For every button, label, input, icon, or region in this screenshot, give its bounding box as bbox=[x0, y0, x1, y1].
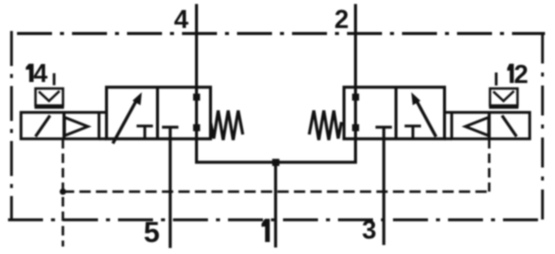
valve V1 position divider bbox=[156, 87, 159, 139]
pilot triangle (left, pointing right) bbox=[65, 117, 88, 135]
valve V2 blocked port T (right square) bbox=[405, 126, 421, 139]
solenoid Y1 coil slash bbox=[36, 116, 51, 137]
manual override base bar (right) bbox=[489, 106, 519, 108]
node: pilot junction bbox=[60, 188, 66, 194]
manual override box (left) bbox=[36, 89, 64, 106]
svg-text:4: 4 bbox=[174, 4, 189, 34]
svg-text:5: 5 bbox=[144, 217, 160, 249]
valve V2 position divider bbox=[395, 87, 398, 139]
svg-text:4: 4 bbox=[33, 60, 48, 88]
enclosure top border bbox=[17, 32, 545, 35]
manual override detent V (right) bbox=[493, 91, 514, 101]
label pilot 12 bbox=[507, 64, 514, 83]
manual override detent V (left) bbox=[39, 91, 60, 101]
pilot crossover line (dashed horizontal) bbox=[63, 190, 489, 193]
pilot line 12 (dashed, down from right solenoid) bbox=[488, 139, 491, 192]
port 2 line bbox=[354, 4, 357, 162]
wire: actuator-to-valve top edge bridge (right) bbox=[445, 112, 452, 138]
svg-text:2: 2 bbox=[514, 59, 528, 89]
enclosure right border bbox=[541, 34, 544, 220]
valve V1 blocked port T (port 5, right square) bbox=[162, 126, 178, 129]
valve V1 flow arrow (actuated position) bbox=[113, 99, 138, 144]
svg-text:2: 2 bbox=[334, 4, 348, 34]
pilot triangle (right, pointing left) bbox=[465, 117, 488, 135]
valve V2 body (right 3/2 valve) bbox=[344, 87, 445, 139]
node: valve V2 pass-through lower bbox=[352, 124, 359, 131]
valve V2 blocked port T (port 3, left square) bbox=[376, 126, 392, 129]
manual override stem (right) bbox=[495, 73, 498, 86]
valve V2 flow arrow (actuated position) bbox=[415, 99, 436, 137]
wire: actuator-to-valve top edge bridge (left) bbox=[99, 112, 107, 138]
solenoid Y2 box (right actuator) bbox=[452, 112, 530, 138]
manual override base bar (left) bbox=[35, 106, 65, 108]
port 4 line bbox=[195, 4, 198, 162]
node: junction port 1 bbox=[272, 159, 279, 166]
enclosure left border bbox=[10, 31, 13, 219]
manual override box (right) bbox=[490, 89, 518, 106]
valve V1 body (left 3/2 valve) bbox=[107, 87, 211, 139]
pilot triangle back line (right) bbox=[488, 112, 491, 139]
svg-text:3: 3 bbox=[362, 215, 376, 245]
label pilot 14 bbox=[26, 64, 34, 82]
solenoid Y2 coil slash bbox=[502, 116, 517, 137]
enclosure bottom border bbox=[8, 218, 543, 221]
valve V1 blocked port T (left square) bbox=[137, 126, 153, 139]
spring (left valve return) bbox=[211, 111, 243, 141]
port 1 line bbox=[274, 162, 277, 248]
manual override stem (left) bbox=[53, 73, 56, 85]
solenoid Y1 box (left actuator) bbox=[21, 112, 99, 138]
port 3 line bbox=[382, 127, 385, 245]
wire: U connector to port 1 bbox=[195, 161, 357, 164]
node: valve V1 pass-through lower bbox=[193, 124, 200, 131]
pilot line 14 (dashed, down from left solenoid) bbox=[62, 139, 65, 247]
label port 1 bbox=[262, 219, 270, 242]
port 5 line bbox=[169, 127, 172, 248]
spring (right valve return) bbox=[309, 111, 341, 141]
node: valve V2 pass-through upper bbox=[352, 94, 359, 101]
node: valve V1 pass-through upper bbox=[193, 94, 200, 101]
pilot triangle back line (left) bbox=[63, 112, 66, 139]
